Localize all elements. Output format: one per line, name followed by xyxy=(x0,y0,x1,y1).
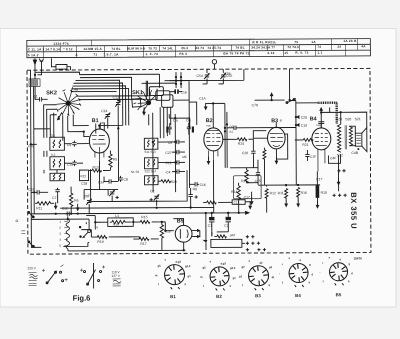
wire SK1 drops xyxy=(149,107,171,192)
resistor R6 xyxy=(69,187,78,214)
svg-text:g2,4: g2,4 xyxy=(185,264,191,268)
ground arrow R16 xyxy=(296,200,300,208)
svg-text:B1: B1 xyxy=(170,294,176,299)
chassis dashed border xyxy=(27,68,371,254)
svg-text:R17: R17 xyxy=(140,242,146,246)
antenna coil S1 xyxy=(29,79,40,87)
wire from table to R1 xyxy=(51,58,70,70)
svg-text:g1: g1 xyxy=(239,274,243,278)
tube B3 xyxy=(267,127,285,149)
svg-text:15: 15 xyxy=(284,51,288,55)
svg-text:C14: C14 xyxy=(101,109,107,113)
electrolytic C2 xyxy=(224,212,231,232)
terminal mark xyxy=(21,231,25,234)
barretter L1 box xyxy=(108,214,134,227)
svg-text:74 BL: 74 BL xyxy=(111,47,120,51)
wire SK2 left drops xyxy=(44,105,58,138)
capacitor C27 xyxy=(165,150,185,155)
svg-text:f: f xyxy=(323,279,324,283)
coil box S5 xyxy=(50,173,65,181)
svg-text:C1: C1 xyxy=(208,224,212,228)
svg-text:4.1: 4.1 xyxy=(51,153,56,157)
mains switch SK3a xyxy=(28,211,35,218)
junction dots B2 right xyxy=(224,123,234,134)
capacitor C12b xyxy=(158,160,185,165)
svg-text:-: - xyxy=(320,271,321,274)
diode Da xyxy=(166,119,178,135)
svg-text:g2: g2 xyxy=(241,265,245,269)
wire AVC line xyxy=(252,99,285,107)
svg-text:C4B: C4B xyxy=(351,151,358,155)
svg-text:7.9.7. 1A: 7.9.7. 1A xyxy=(103,52,119,56)
svg-text:C17: C17 xyxy=(244,195,250,199)
antenna A1 xyxy=(34,58,36,69)
svg-text:4A: 4A xyxy=(361,44,366,48)
svg-text:B5: B5 xyxy=(177,218,184,224)
resistor R1 top box xyxy=(56,64,67,69)
svg-text:a,g3: a,g3 xyxy=(220,261,226,265)
svg-text:S21: S21 xyxy=(355,117,361,121)
wire SK2 lower drops xyxy=(63,115,105,141)
mains switch SK3b xyxy=(28,241,35,248)
ground arrow B2 cathode xyxy=(207,156,211,165)
wire power left xyxy=(31,213,185,251)
svg-text:C1F: C1F xyxy=(310,155,316,159)
tube base B5 xyxy=(319,256,353,285)
svg-text:a,g3: a,g3 xyxy=(175,260,181,264)
svg-text:20F: 20F xyxy=(84,194,90,198)
svg-text:R13: R13 xyxy=(92,166,98,170)
capacitor C18b xyxy=(296,123,307,128)
capacitor C10 xyxy=(67,160,77,166)
svg-text:C70: C70 xyxy=(252,103,258,107)
svg-text:C16: C16 xyxy=(181,90,187,94)
svg-text:C27: C27 xyxy=(165,151,171,155)
tube B5 xyxy=(175,225,192,242)
svg-text:R23: R23 xyxy=(81,174,87,178)
wire SK2 down arrow xyxy=(57,113,62,120)
svg-text:R5: R5 xyxy=(113,157,117,161)
svg-text:g3: g3 xyxy=(269,265,273,269)
trimmer C54 xyxy=(196,69,209,84)
svg-text:MF: MF xyxy=(182,155,187,159)
svg-text:1. 5. 74: 1. 5. 74 xyxy=(145,52,158,56)
tube B1 xyxy=(89,129,109,161)
wire bus to C55 xyxy=(164,69,244,102)
svg-text:R: R xyxy=(15,219,19,222)
ground arrow W1 xyxy=(54,202,58,210)
tube base B1 xyxy=(155,259,191,290)
svg-text:C56: C56 xyxy=(224,71,230,75)
svg-text:C2: C2 xyxy=(224,224,228,228)
svg-text:1.1: 1.1 xyxy=(317,51,322,55)
svg-text:C19: C19 xyxy=(301,124,307,128)
svg-text:S11 S13: S11 S13 xyxy=(144,150,156,154)
svg-text:15470: 15470 xyxy=(353,256,362,260)
svg-text:R16: R16 xyxy=(301,191,307,195)
output transformer S23 secondary xyxy=(345,125,353,149)
capacitor C16 xyxy=(170,89,187,94)
svg-text:SK2: SK2 xyxy=(46,90,57,96)
svg-text:34.24 34.5A 77: 34.24 34.5A 77 xyxy=(251,45,275,49)
resistor R20b xyxy=(160,222,171,251)
anode arrow B4 xyxy=(319,107,323,115)
wire B5 right bus xyxy=(202,213,207,250)
resistor R12 xyxy=(265,189,276,213)
detector box outline xyxy=(234,176,262,199)
wire SK1 feed xyxy=(142,81,190,101)
switch SK gram xyxy=(286,98,296,103)
svg-text:C1A: C1A xyxy=(199,97,206,101)
svg-text:f: f xyxy=(242,283,243,287)
svg-text:R18: R18 xyxy=(113,222,119,226)
svg-text:C7: C7 xyxy=(52,196,56,200)
svg-text:C18: C18 xyxy=(81,182,87,186)
capacitor C4 xyxy=(165,169,185,174)
svg-text:3.1: 3.1 xyxy=(51,134,56,138)
svg-text:BX 355 U: BX 355 U xyxy=(349,192,358,229)
capacitor C11 xyxy=(28,144,34,148)
ground arrow C17 xyxy=(248,202,252,210)
wire B3 pins xyxy=(253,122,287,159)
capacitor C9 xyxy=(67,141,77,147)
tuning gang frame xyxy=(60,168,214,208)
svg-text:74 25-74: 74 25-74 xyxy=(207,46,221,50)
capacitor C24 xyxy=(224,125,296,130)
loudspeaker xyxy=(349,126,367,155)
resistor R17b xyxy=(203,201,232,204)
wire band bus 3 xyxy=(71,77,132,112)
wire B1 cathode bus xyxy=(84,161,118,200)
capacitor C18 xyxy=(28,187,48,194)
svg-text:R24: R24 xyxy=(238,142,244,146)
coil box S3 xyxy=(50,134,65,151)
svg-text:S20: S20 xyxy=(345,117,351,121)
wire band bus (nested) xyxy=(77,89,158,100)
wire speaker top xyxy=(341,112,367,128)
ground arrow B2 xyxy=(204,102,225,110)
svg-text:PA 3: PA 3 xyxy=(179,52,187,56)
wire B2-B3 bus xyxy=(230,131,267,213)
trimmer C3 gang xyxy=(109,190,115,201)
resistor R19 xyxy=(91,235,137,244)
voltage selector S25 xyxy=(59,216,69,251)
svg-text:gr: gr xyxy=(280,118,283,122)
wire heater to chassis xyxy=(194,231,245,244)
svg-text:C54: C54 xyxy=(196,74,202,78)
svg-text:R21: R21 xyxy=(302,143,308,147)
wire heater net xyxy=(81,222,174,239)
svg-text:127 V: 127 V xyxy=(112,274,121,278)
selector wiper xyxy=(79,219,99,239)
svg-text:C4F: C4F xyxy=(330,156,336,160)
capacitor C1A xyxy=(199,97,206,101)
resistor R5 xyxy=(109,150,118,170)
ground arrow SK1 xyxy=(142,107,146,116)
svg-text:a1: a1 xyxy=(272,275,276,279)
tube B3 label xyxy=(271,118,282,124)
wire loop SK1 c xyxy=(162,95,173,107)
svg-text:g1: g1 xyxy=(233,276,237,280)
svg-text:1A 2k R: 1A 2k R xyxy=(343,39,357,43)
resistor R15 xyxy=(133,215,158,223)
svg-text:R20: R20 xyxy=(171,180,177,184)
svg-text:R6: R6 xyxy=(74,199,78,203)
svg-text:B1: B1 xyxy=(92,118,99,124)
svg-text:SK1: SK1 xyxy=(132,90,143,96)
wire B5 pins xyxy=(173,218,200,250)
svg-text:B4: B4 xyxy=(295,293,301,298)
svg-text:R R FL RU21L: R R FL RU21L xyxy=(252,40,276,44)
svg-text:BA 75 74 PA 72: BA 75 74 PA 72 xyxy=(223,51,249,55)
coupling box M1 xyxy=(132,99,141,108)
wire mid drops xyxy=(99,104,129,181)
svg-text:R10: R10 xyxy=(321,191,327,195)
svg-text:5 1A.2: 5 1A.2 xyxy=(28,53,39,57)
wire loop SK1 b xyxy=(156,91,170,101)
svg-text:1A: 1A xyxy=(311,40,316,44)
svg-text:R9: R9 xyxy=(193,187,197,191)
svg-text:C18: C18 xyxy=(28,187,34,191)
pickup terminal P xyxy=(212,60,216,70)
svg-text:B3: B3 xyxy=(271,118,278,124)
svg-text:-: - xyxy=(279,273,280,276)
capacitor C26 xyxy=(242,139,256,168)
resistor R11 xyxy=(278,189,288,201)
svg-text:40: 40 xyxy=(74,88,78,92)
table row2 text xyxy=(28,44,366,51)
svg-text:14.MB 15.A: 14.MB 15.A xyxy=(83,47,102,51)
tube base B3 xyxy=(239,260,275,291)
svg-text:MF: MF xyxy=(100,121,104,125)
diode Db xyxy=(186,118,194,134)
wire HT vertical right xyxy=(288,69,297,186)
capacitor C17b xyxy=(244,195,250,199)
svg-text:24: 24 xyxy=(229,130,233,134)
svg-text:25.3: 25.3 xyxy=(181,46,188,50)
plus cluster right2 xyxy=(333,194,347,197)
svg-text:R14: R14 xyxy=(231,190,237,194)
anode arrow B3 xyxy=(270,92,274,100)
resistor R13b xyxy=(241,168,248,183)
tube base B2 xyxy=(200,260,236,290)
svg-text:R11: R11 xyxy=(36,206,42,210)
resistor R22 plof xyxy=(211,232,242,248)
svg-text:C16: C16 xyxy=(200,183,206,187)
table column dividers xyxy=(43,39,357,58)
resistor R21 xyxy=(295,138,314,146)
rotary switch SK1 xyxy=(133,90,155,114)
svg-text:B3: B3 xyxy=(255,293,261,298)
wire IF to B2 xyxy=(169,102,197,192)
svg-text:* 9 12: * 9 12 xyxy=(63,47,72,51)
svg-text:S12 S14: S12 S14 xyxy=(144,169,156,173)
coil box S4 xyxy=(50,153,65,170)
capacitor C17 block xyxy=(232,200,250,205)
svg-text:71: 71 xyxy=(93,53,97,57)
svg-text:f: f xyxy=(203,284,204,288)
tube B4 xyxy=(312,128,331,172)
svg-text:24: 24 xyxy=(337,45,341,49)
mains label 110V 127V xyxy=(112,270,122,286)
wire heater row1 xyxy=(86,215,108,229)
rotary switch SK2 xyxy=(57,87,81,116)
table row1 text xyxy=(53,39,357,46)
svg-text:nav: nav xyxy=(206,124,211,128)
svg-text:f: f xyxy=(158,282,159,286)
electrolytic C1 xyxy=(208,213,215,236)
svg-text:g5: g5 xyxy=(157,264,161,268)
bandfilter box S12 xyxy=(144,158,158,174)
svg-text:C20: C20 xyxy=(336,117,342,121)
resistor R23 xyxy=(263,148,266,186)
capacitor R9 xyxy=(188,187,197,207)
svg-text:Db: Db xyxy=(186,118,190,122)
svg-text:R15: R15 xyxy=(141,215,147,219)
tube base B4 xyxy=(279,257,314,287)
svg-text:R. 9. 73: R. 9. 73 xyxy=(295,51,308,55)
svg-text:72 74.5: 72 74.5 xyxy=(287,45,299,49)
svg-text:B2: B2 xyxy=(216,294,222,299)
tube B2 label xyxy=(206,118,213,127)
svg-text:75 72: 75 72 xyxy=(148,46,157,50)
table row3 text xyxy=(28,51,323,58)
svg-text:4.12: 4.12 xyxy=(267,51,274,55)
svg-text:75: 75 xyxy=(294,40,298,44)
svg-text:C5: C5 xyxy=(229,125,233,129)
svg-text:14.7 8.14: 14.7 8.14 xyxy=(45,47,60,51)
wire antenna feeds xyxy=(35,70,42,99)
capacitor C19 xyxy=(296,115,307,120)
resistor R13a xyxy=(89,165,110,172)
svg-text:S1 S2: S1 S2 xyxy=(131,170,140,174)
resistor box R23 xyxy=(79,170,88,186)
capacitor C16b xyxy=(189,182,206,187)
svg-text:C2: C2 xyxy=(150,189,154,193)
svg-text:C17: C17 xyxy=(234,201,240,205)
ground arrow R11 xyxy=(284,200,288,208)
ground arrow B3 xyxy=(275,157,279,165)
svg-text:C14: C14 xyxy=(98,181,104,185)
svg-text:9LM 96 5-9: 9LM 96 5-9 xyxy=(127,46,145,50)
wire mid bus xyxy=(258,184,320,187)
trimmer C13 xyxy=(113,95,121,128)
ground arrow C15 xyxy=(250,192,254,206)
svg-text:74 BL: 74 BL xyxy=(235,46,244,50)
trimmer C2 tuning xyxy=(84,194,92,213)
mains plug switch A xyxy=(42,265,68,284)
wire down right xyxy=(337,155,341,191)
tube B1 label xyxy=(92,118,105,125)
tube B2 xyxy=(204,128,223,160)
ground arrow HT xyxy=(76,204,80,215)
coil S17 S18 xyxy=(296,103,337,125)
svg-text:B4: B4 xyxy=(310,116,317,122)
capacitor C12 xyxy=(62,206,72,215)
svg-text:B5: B5 xyxy=(336,292,342,297)
svg-text:24 73: 24 73 xyxy=(195,46,204,50)
wire band bus 2 xyxy=(35,72,159,89)
capacitor C1 xyxy=(33,94,50,128)
wire left column xyxy=(30,70,89,214)
svg-text:L1: L1 xyxy=(115,214,119,218)
svg-text:C8: C8 xyxy=(168,141,172,145)
svg-text:220 V: 220 V xyxy=(28,266,37,270)
svg-text:R12: R12 xyxy=(270,191,276,195)
wire B2 connections xyxy=(213,103,238,213)
wire left second xyxy=(33,86,36,213)
svg-text:f: f xyxy=(282,281,283,285)
svg-text:g5: g5 xyxy=(203,265,207,269)
plus marks gang xyxy=(116,195,198,201)
ground arrow R10 xyxy=(316,201,320,209)
junction cluster xyxy=(169,72,189,88)
node dot antenna xyxy=(34,74,36,76)
resistor R14 xyxy=(231,183,240,199)
wire anode HT line xyxy=(31,211,250,216)
plus cluster right1 xyxy=(337,169,345,172)
resistor R17 xyxy=(133,237,158,246)
trimmer C55 xyxy=(220,69,232,84)
svg-text:C8: C8 xyxy=(124,178,128,182)
svg-text:R11: R11 xyxy=(278,191,284,195)
svg-text:C20: C20 xyxy=(301,116,307,120)
svg-text:C26: C26 xyxy=(242,151,248,155)
chassis plus cluster xyxy=(246,235,266,251)
capacitor C1F xyxy=(305,150,316,161)
svg-text:a2: a2 xyxy=(259,261,263,265)
trimmer C14 xyxy=(101,109,110,128)
wire B4 to transformer xyxy=(321,112,341,163)
capacitor C8b xyxy=(118,176,128,182)
mains plug switch B xyxy=(80,263,105,289)
resistor R10 box xyxy=(316,185,327,203)
capacitor C7 xyxy=(52,188,60,204)
trimmer C21 xyxy=(150,189,159,206)
bandfilter box S15 xyxy=(131,170,158,185)
svg-text:1334-F7k: 1334-F7k xyxy=(53,42,69,46)
junction dots net xyxy=(30,111,343,252)
svg-text:g2,4: g2,4 xyxy=(230,266,236,270)
antenna A2 xyxy=(39,59,43,70)
svg-text:Fig.6: Fig.6 xyxy=(73,294,91,303)
capacitor C8 xyxy=(158,140,185,145)
svg-text:R19: R19 xyxy=(97,240,103,244)
capacitor C15 xyxy=(254,168,260,185)
switch position table frame xyxy=(27,39,371,58)
resistor R20 xyxy=(158,180,177,184)
svg-text:-C4: -C4 xyxy=(165,170,171,174)
output transformer S22 primary xyxy=(337,124,343,157)
svg-text:g1: g1 xyxy=(188,274,192,278)
mains label 220V xyxy=(28,266,38,285)
svg-text:C12: C12 xyxy=(165,161,171,165)
svg-text:S22: S22 xyxy=(337,153,343,157)
label C20 S20 S21 xyxy=(336,117,361,121)
resistor R16 xyxy=(297,187,307,200)
bandfilter box S11 xyxy=(144,138,158,154)
wire B4 column xyxy=(317,107,330,185)
B4 anode top cap xyxy=(318,122,324,129)
capacitor C14b xyxy=(98,176,118,184)
svg-text:74 14L: 74 14L xyxy=(162,46,173,50)
resistor R24 xyxy=(237,138,253,146)
coil R11a xyxy=(35,202,54,211)
wire loop SK1 a xyxy=(149,87,163,96)
svg-text:74: 74 xyxy=(317,45,321,49)
svg-text:C 11. 1A 3: C 11. 1A 3 xyxy=(28,47,45,51)
